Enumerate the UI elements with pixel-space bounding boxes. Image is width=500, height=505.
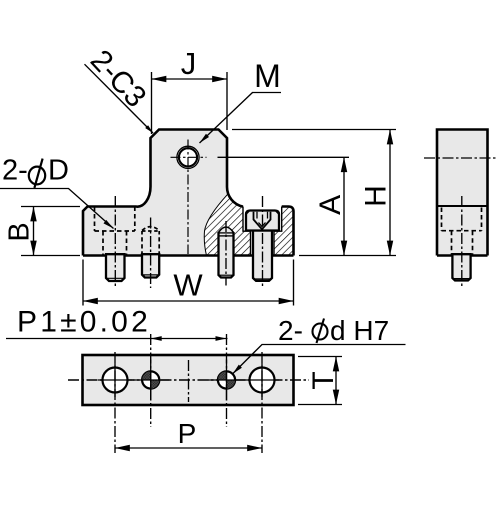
counterbore wall lines (section) bbox=[243, 207, 251, 256]
dim B extension lines bbox=[21, 207, 80, 256]
hidden dowel pin 2 (dashed) bbox=[142, 227, 159, 256]
side view bbox=[424, 130, 497, 288]
label 2-C3 leader bbox=[85, 64, 154, 133]
dowel pin 3 (sectioned side) bbox=[219, 227, 234, 278]
svg-text:2-: 2- bbox=[2, 155, 28, 187]
socket recess bbox=[254, 212, 271, 230]
svg-text:A: A bbox=[314, 195, 347, 215]
svg-text:H: H bbox=[360, 185, 393, 207]
dim J line bbox=[152, 78, 228, 80]
stud1 centerline bbox=[114, 196, 116, 288]
side view vertical centerline bbox=[461, 196, 463, 287]
svg-text:P: P bbox=[178, 418, 197, 449]
hole 1 bbox=[103, 368, 128, 393]
dim H bbox=[232, 129, 396, 131]
bottom view bbox=[6, 306, 406, 454]
base bottom edge segments bbox=[83, 254, 294, 257]
hidden counterbore hole left (dashed) bbox=[95, 207, 135, 256]
svg-text:2-C3: 2-C3 bbox=[84, 44, 152, 114]
dowel hole 3 bbox=[218, 371, 235, 388]
section hatch right region bbox=[274, 207, 294, 256]
vertical centerlines bbox=[114, 352, 116, 453]
svg-text:B: B bbox=[4, 222, 36, 241]
hole 4 bbox=[250, 368, 275, 393]
svg-text:J: J bbox=[181, 46, 197, 81]
dowel hole 2 bbox=[142, 371, 159, 388]
horizontal centerline bbox=[68, 379, 309, 381]
dowel pin 2 stud below base bbox=[142, 254, 159, 277]
svg-text:D: D bbox=[48, 155, 69, 187]
svg-text:T: T bbox=[307, 371, 340, 389]
tapped hole M outer circle bbox=[177, 146, 199, 168]
hole centerline horizontal bbox=[171, 156, 207, 158]
hole/tower centerline vertical bbox=[187, 140, 189, 255]
svg-text:M: M bbox=[254, 58, 281, 94]
dim T bbox=[298, 357, 342, 405]
svg-text:W: W bbox=[173, 268, 203, 303]
dim P bbox=[115, 447, 262, 449]
svg-text:d H7: d H7 bbox=[330, 315, 389, 346]
dim A bbox=[218, 156, 350, 158]
section hatch left region bbox=[204, 194, 250, 255]
svg-text:P1±0.02: P1±0.02 bbox=[17, 306, 151, 339]
svg-text:2-: 2- bbox=[278, 315, 303, 346]
front view body fill bbox=[0, 44, 396, 306]
dim J extension lines bbox=[152, 72, 228, 134]
side stud bbox=[452, 254, 470, 280]
screw stud 1 below base bbox=[106, 254, 125, 281]
hole crosshairs solid bbox=[98, 360, 279, 401]
SHCS head bbox=[246, 211, 279, 231]
side view horizontal centerline bbox=[424, 157, 497, 159]
hidden counterbore bbox=[442, 208, 482, 256]
tapped hole M inner circle bbox=[179, 148, 197, 166]
base top surface edge bbox=[437, 205, 488, 207]
pin2 centerline bbox=[150, 218, 152, 289]
screw4 centerline bbox=[262, 196, 264, 288]
dim W bbox=[83, 260, 294, 306]
pin3 centerline bbox=[225, 221, 227, 286]
body outline bbox=[83, 130, 243, 256]
section break line bbox=[204, 194, 227, 255]
socket head cap screw 4 shank bbox=[253, 231, 272, 281]
